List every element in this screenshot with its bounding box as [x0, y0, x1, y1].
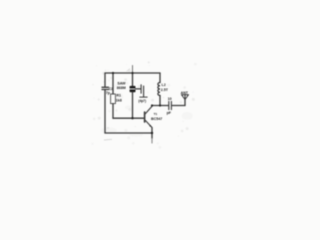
svg-text:7p: 7p — [106, 91, 111, 95]
svg-text:2.5T: 2.5T — [161, 88, 169, 92]
svg-text:pF: pF — [167, 111, 172, 115]
svg-text:(4p7): (4p7) — [138, 99, 146, 103]
svg-text:T1: T1 — [154, 112, 158, 116]
svg-text:L2: L2 — [162, 83, 166, 87]
svg-text:10: 10 — [168, 97, 172, 101]
svg-text:BC547: BC547 — [151, 117, 162, 121]
svg-text:ANT: ANT — [181, 91, 189, 95]
